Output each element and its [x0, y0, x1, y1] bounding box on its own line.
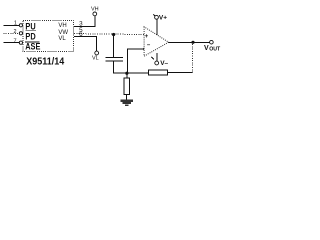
svg-text:VH: VH: [58, 23, 66, 29]
svg-text:+: +: [145, 34, 149, 40]
svg-text:V–: V–: [160, 60, 168, 67]
svg-text:VL: VL: [92, 55, 99, 61]
svg-text:X9511/14: X9511/14: [26, 56, 65, 68]
svg-text:V+: V+: [159, 15, 167, 22]
svg-text:2: 2: [13, 29, 16, 35]
svg-text:OUT: OUT: [209, 46, 221, 52]
svg-text:1: 1: [14, 21, 17, 27]
svg-text:PU: PU: [25, 22, 35, 32]
svg-text:ASE: ASE: [25, 42, 41, 52]
svg-text:PD: PD: [25, 32, 35, 42]
svg-text:7: 7: [13, 38, 16, 44]
svg-text:VH: VH: [91, 7, 99, 13]
svg-text:VL: VL: [58, 36, 66, 42]
